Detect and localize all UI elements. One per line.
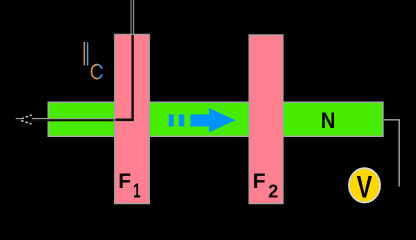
label F2	[253, 170, 278, 201]
label N	[321, 108, 336, 133]
wire core crossing plate F1	[115, 35, 134, 121]
svg-text:2: 2	[268, 181, 278, 201]
svg-text:F: F	[118, 170, 131, 193]
svg-text:1: 1	[133, 181, 141, 203]
svg-text:N: N	[321, 108, 336, 133]
label Ic (current)	[84, 42, 102, 79]
svg-text:F: F	[253, 170, 266, 193]
voltmeter V	[349, 168, 380, 204]
ferromagnetic plate F1	[115, 34, 150, 203]
wire (voltmeter lead, right side)	[384, 120, 399, 187]
ferromagnetic plate F2	[249, 35, 283, 204]
magnetization arrow (blue, pointing right)	[169, 108, 236, 132]
green conductor bar N	[48, 102, 383, 136]
svg-text:V: V	[357, 168, 373, 204]
wire (current lead: vertical drop from top edge, elbow left)	[16, 0, 135, 121]
current arrow head (pointing left)	[21, 115, 32, 124]
label F1	[118, 170, 140, 203]
